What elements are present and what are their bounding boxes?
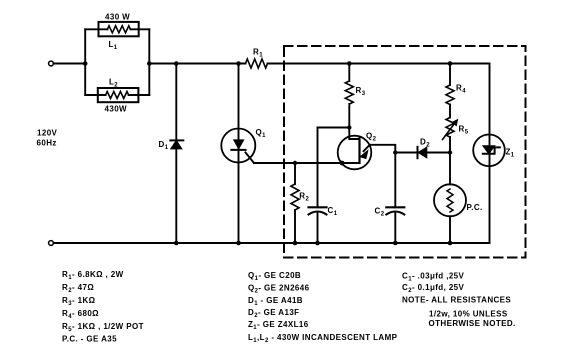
wire bottom rail: [54, 242, 490, 244]
wire top rail right of R1: [268, 63, 490, 65]
lamp L2 resistor zigzag: [106, 92, 129, 99]
svg-text:P.C. - GE A35: P.C. - GE A35: [62, 335, 117, 344]
svg-text:OTHERWISE NOTED.: OTHERWISE NOTED.: [429, 319, 516, 328]
node D1 bottom: [174, 241, 179, 246]
wire R4 branch from top rail: [449, 64, 451, 86]
node R3 top: [347, 61, 352, 66]
node PC bottom: [448, 241, 453, 246]
wire D2 horizontal: [395, 152, 450, 154]
svg-text:430 W: 430 W: [105, 13, 130, 22]
wire C2 bottom lead: [394, 212, 396, 243]
resistor R2: [291, 184, 299, 210]
R5 wiper arrow: [443, 119, 458, 139]
wire Q1 gate horizontal to Q2 B1: [254, 162, 343, 164]
wire R3 bottom lead: [348, 104, 350, 128]
lamp L1 resistor zigzag: [107, 26, 130, 33]
potentiometer R5: [446, 118, 454, 138]
wire lamp left bus: [84, 29, 86, 95]
wire L1 branch right: [130, 28, 149, 30]
svg-text:1/2w, 10% UNLESS: 1/2w, 10% UNLESS: [429, 310, 508, 319]
node C1 bottom: [315, 241, 320, 246]
wire Z1 branch: [489, 64, 491, 244]
wire L1 branch left: [85, 28, 107, 30]
capacitor C1: [309, 207, 327, 214]
node lamp right bus: [147, 61, 152, 66]
svg-text:430W: 430W: [105, 105, 128, 114]
wire Q1 gate diagonal: [246, 153, 255, 164]
resistor R3: [345, 81, 353, 104]
wire R2 top lead: [294, 163, 296, 184]
node lamp left bus: [83, 61, 88, 66]
wire top terminal to lamp bus: [54, 63, 86, 65]
wire C1 bottom lead: [317, 212, 319, 243]
node C2 bottom: [393, 241, 398, 246]
node R5-D2-PC junction: [448, 150, 452, 154]
dashed enclosure box: [284, 46, 526, 258]
node R2 top junction: [293, 161, 297, 165]
wire L2 branch right: [129, 94, 150, 96]
wire R2 bottom lead: [294, 210, 296, 243]
resistor R4: [446, 85, 454, 105]
terminal top-left: [49, 61, 54, 66]
capacitor C2: [386, 207, 404, 214]
zener Z1: [473, 135, 505, 167]
wire C2 branch vertical: [394, 153, 396, 208]
wire D1 branch: [175, 64, 177, 244]
wire PC bottom lead: [449, 216, 451, 243]
wire C1 branch vertical: [317, 128, 319, 208]
wire R3 branch from top rail: [348, 64, 350, 82]
node Q1 bottom: [236, 241, 241, 246]
wire R5 bottom lead: [449, 137, 451, 153]
svg-text:P.C.: P.C.: [467, 203, 483, 212]
node R3 bottom junction: [347, 125, 351, 129]
transistor Q2 (UJT): [338, 128, 372, 170]
node D2-C2 junction: [393, 150, 397, 154]
resistor R1: [246, 59, 268, 68]
svg-text:NOTE- ALL RESISTANCES: NOTE- ALL RESISTANCES: [402, 296, 511, 305]
wire lamp right bus: [148, 29, 150, 95]
terminal bottom-left: [49, 241, 54, 246]
lamp L1 box: [99, 22, 139, 36]
node Q1 top: [236, 61, 241, 66]
wire Q2 emitter to C2 branch: [370, 145, 396, 153]
photocell P.C.: [434, 184, 466, 216]
svg-text:120V: 120V: [37, 129, 58, 138]
wire top rail left of R1: [149, 63, 245, 65]
diode D2: [418, 147, 427, 158]
wire L2 branch left: [85, 94, 105, 96]
wire PC top lead: [449, 153, 451, 185]
node D1 top: [174, 61, 179, 66]
diode D1: [170, 140, 183, 148]
wire Q1 branch: [238, 64, 240, 244]
svg-text:60Hz: 60Hz: [37, 139, 57, 148]
wire junction to C1 branch horizontal: [318, 127, 350, 129]
lamp L2 box: [98, 88, 139, 102]
wire R4 to R5: [449, 105, 451, 118]
SCR Q1: [221, 129, 255, 163]
node R2 bottom: [293, 241, 298, 246]
node Q2 B1 junction on circle: [340, 161, 345, 166]
node R4 top: [448, 61, 453, 66]
